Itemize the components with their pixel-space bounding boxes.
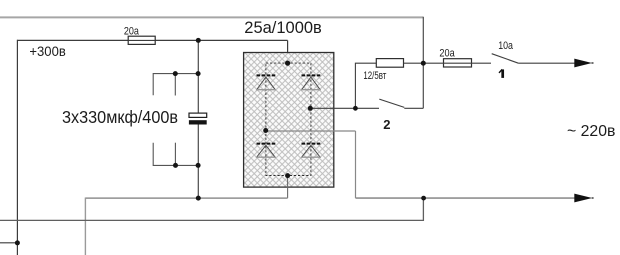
svg-text:25а/1000в: 25а/1000в — [244, 19, 321, 37]
svg-text:10a: 10a — [498, 40, 514, 52]
svg-text:20a: 20a — [124, 25, 140, 37]
svg-text:~ 220в: ~ 220в — [567, 123, 615, 140]
svg-text:2: 2 — [383, 117, 390, 132]
svg-text:12/5вт: 12/5вт — [363, 70, 386, 82]
svg-text:20a: 20a — [439, 47, 455, 59]
svg-text:+300в: +300в — [29, 44, 65, 59]
svg-text:3x330мкф/400в: 3x330мкф/400в — [62, 107, 178, 127]
